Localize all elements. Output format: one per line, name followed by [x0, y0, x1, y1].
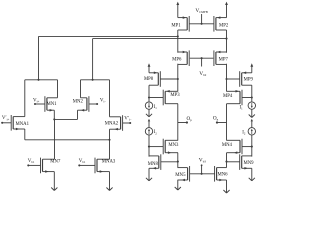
svg-text:MP8: MP8 [144, 77, 154, 82]
svg-text:MP6: MP6 [172, 57, 182, 62]
svg-text:MN2: MN2 [73, 99, 84, 104]
svg-text:Vi+: Vi+ [33, 99, 40, 104]
svg-text:MN7: MN7 [50, 160, 61, 165]
svg-text:I2: I2 [242, 131, 246, 136]
svg-text:MNA2: MNA2 [105, 122, 119, 127]
svg-text:MN5: MN5 [175, 173, 186, 178]
svg-text:MP9: MP9 [244, 78, 254, 83]
svg-text:MN8: MN8 [148, 162, 159, 167]
svg-text:MNA1: MNA1 [16, 122, 30, 127]
svg-text:I1: I1 [239, 106, 243, 111]
svg-text:Vi−: Vi− [100, 99, 107, 104]
svg-text:MN6: MN6 [218, 172, 229, 177]
svg-text:MP7: MP7 [219, 57, 229, 62]
svg-text:MP3: MP3 [170, 93, 180, 98]
svg-text:MN3: MN3 [168, 143, 179, 148]
svg-text:Vb1: Vb1 [79, 159, 86, 164]
svg-text:V′i−: V′i− [124, 116, 132, 121]
svg-text:MP1: MP1 [171, 23, 181, 28]
svg-text:Vb1: Vb1 [28, 159, 35, 164]
svg-text:MN1: MN1 [47, 102, 58, 107]
svg-text:I1: I1 [154, 105, 158, 110]
svg-text:MN9: MN9 [244, 161, 255, 166]
svg-text:MP2: MP2 [219, 23, 229, 28]
svg-text:MP4: MP4 [223, 94, 233, 99]
svg-text:V′i+: V′i+ [2, 116, 10, 121]
svg-text:MNA3: MNA3 [102, 160, 116, 165]
svg-text:MN4: MN4 [222, 143, 233, 148]
svg-text:I2: I2 [154, 130, 158, 135]
